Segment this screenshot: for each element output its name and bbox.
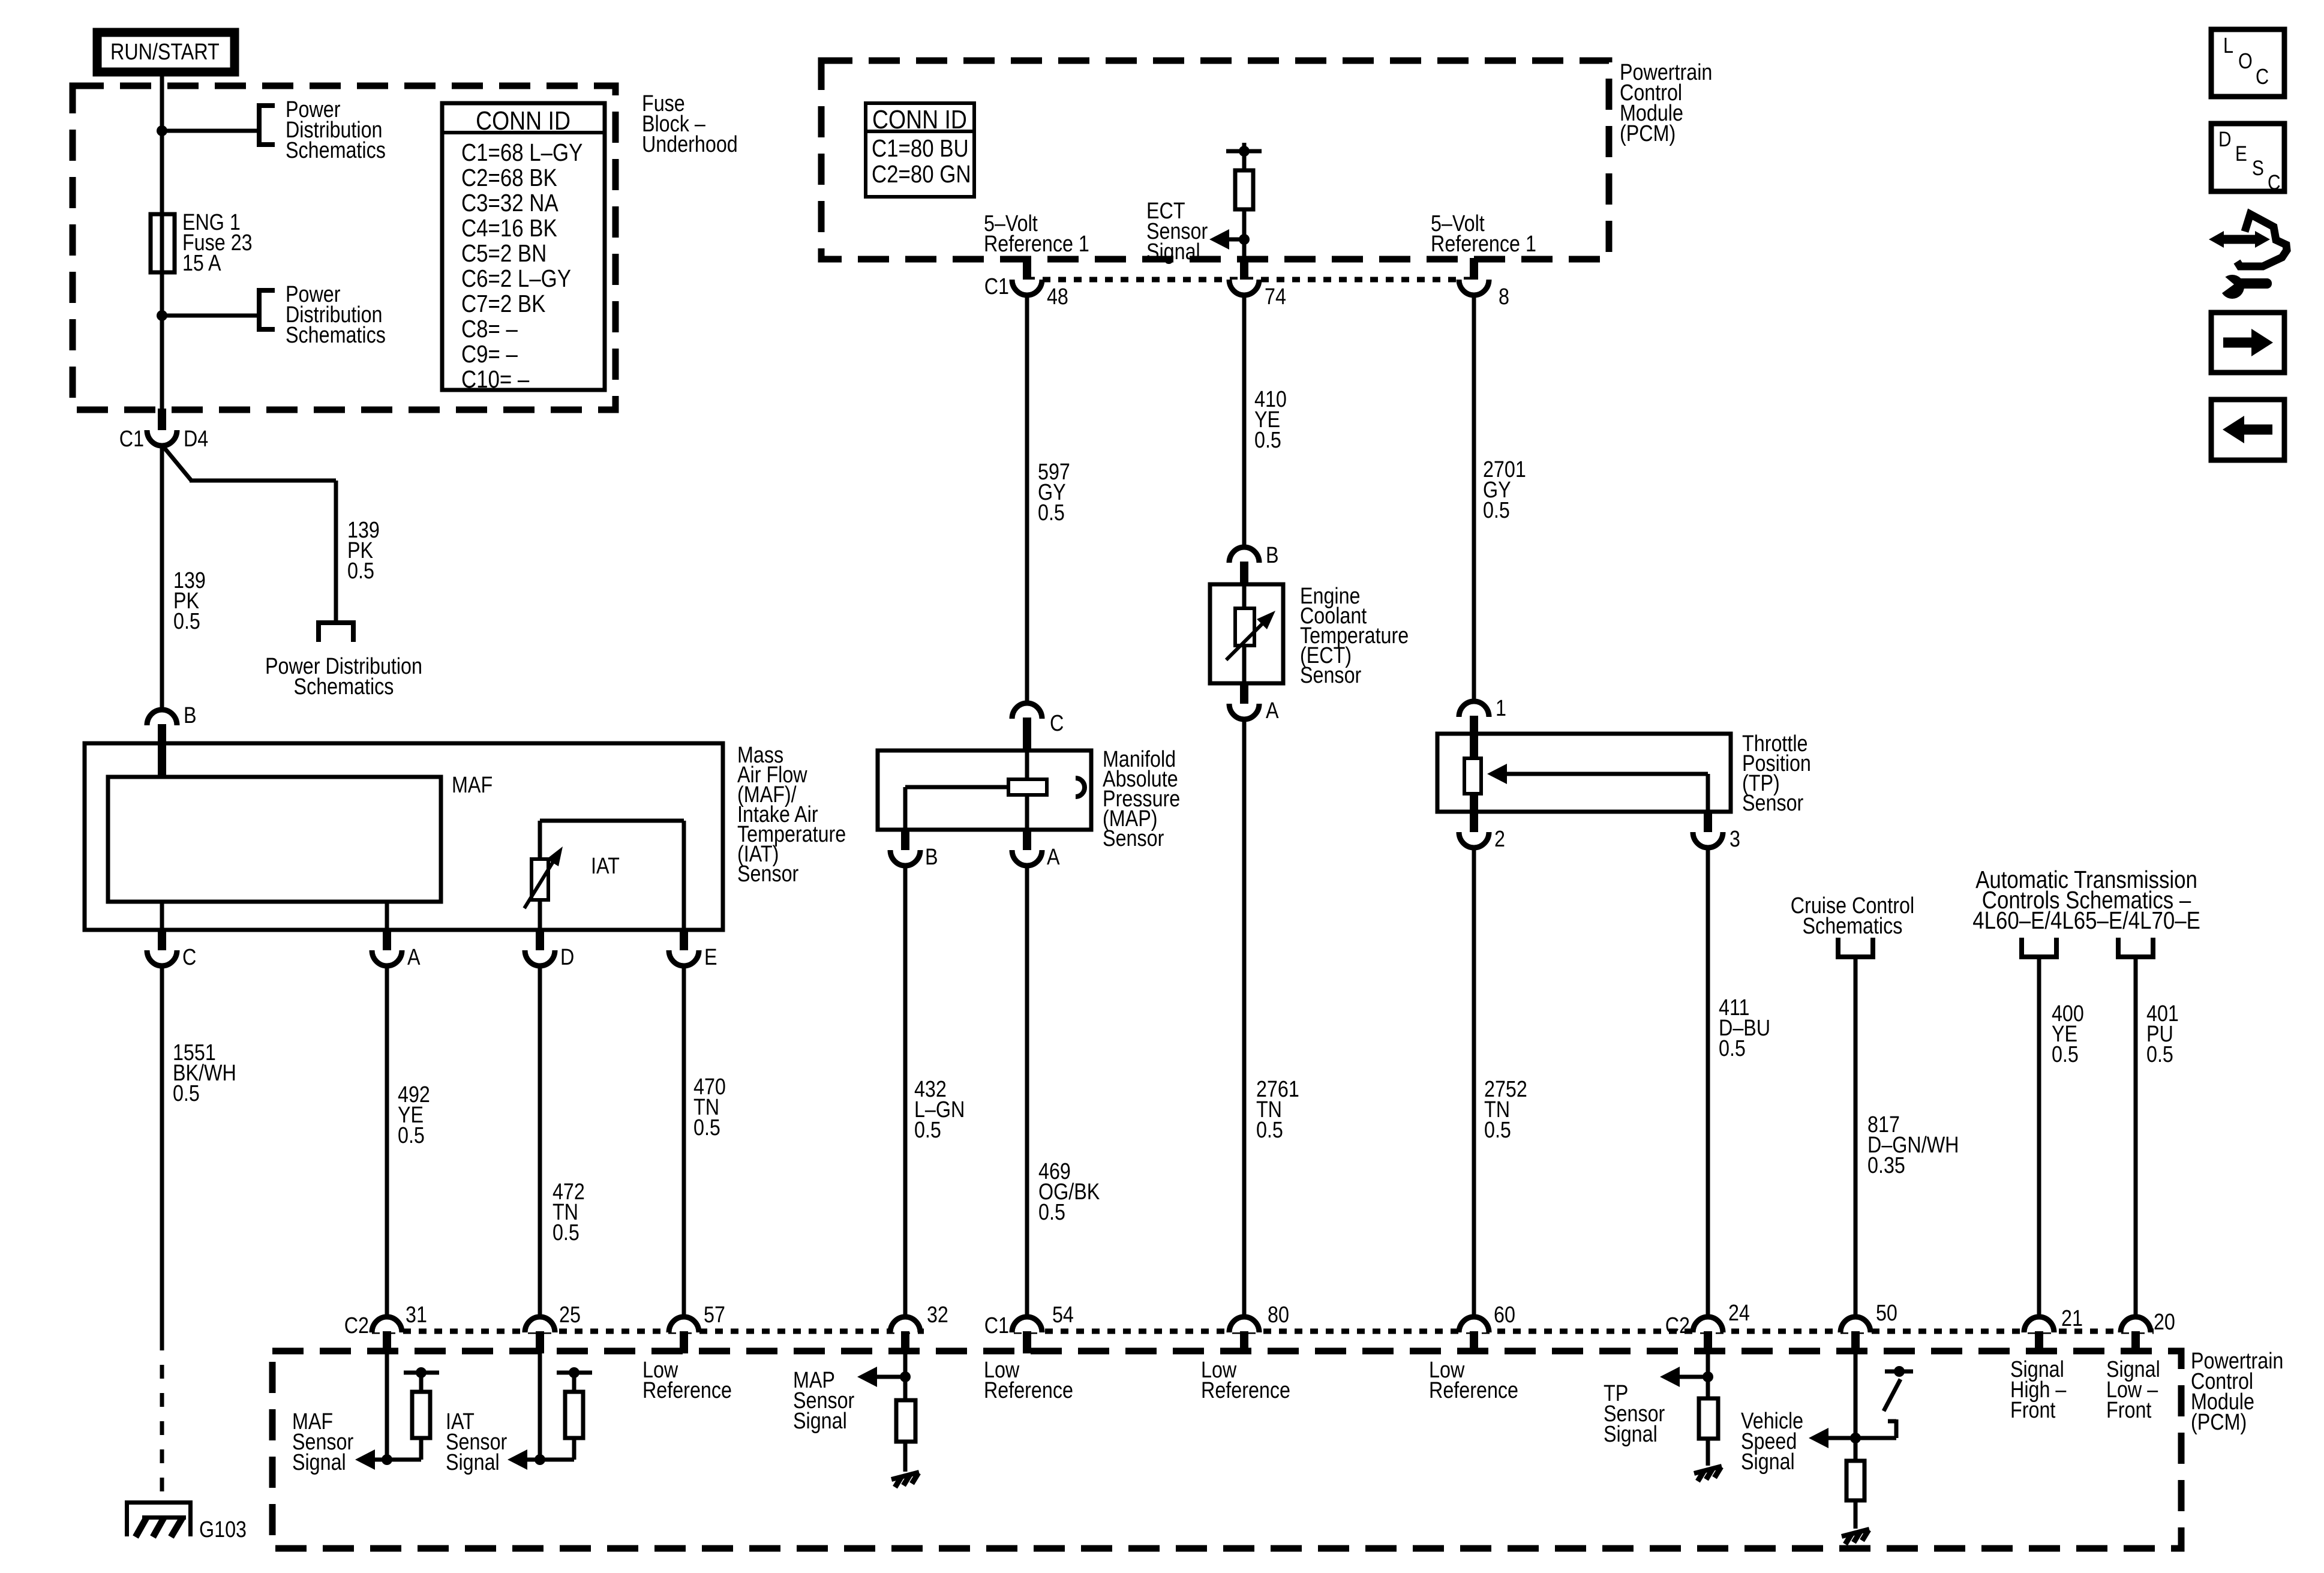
ground G103 <box>125 1500 193 1537</box>
svg-text:0.5: 0.5 <box>693 1115 720 1140</box>
svg-text:D4: D4 <box>184 427 208 452</box>
svg-text:0.5: 0.5 <box>1256 1118 1283 1143</box>
label wire 492 <box>398 1082 430 1148</box>
svg-text:CONN ID: CONN ID <box>872 104 967 134</box>
svg-text:C: C <box>1050 711 1064 736</box>
wire 410 YE <box>1242 294 1247 552</box>
CONN ID table PCM <box>866 103 974 197</box>
label fuse ENG 1 <box>182 210 253 276</box>
svg-text:0.5: 0.5 <box>914 1118 941 1143</box>
svg-text:C2: C2 <box>1665 1313 1690 1338</box>
node junction to power distribution 1 <box>157 125 259 136</box>
connector bracket AT signal low <box>2118 938 2153 957</box>
svg-text:CONN ID: CONN ID <box>476 106 571 136</box>
wire 432 L-GN <box>903 864 908 1317</box>
svg-text:Underhood: Underhood <box>642 132 738 157</box>
wire 817 D-GN/WH <box>1854 957 1858 1317</box>
pin 57 <box>669 1302 725 1353</box>
label wire 432 <box>914 1077 965 1143</box>
wire 139 PK trunk <box>160 445 164 711</box>
svg-text:0.5: 0.5 <box>1038 500 1065 526</box>
svg-text:Sensor: Sensor <box>1300 663 1362 688</box>
svg-text:A: A <box>407 945 421 970</box>
connector A ECT <box>1229 682 1279 724</box>
svg-text:Signal: Signal <box>292 1450 346 1475</box>
svg-text:C4=16 BK: C4=16 BK <box>461 215 557 242</box>
svg-text:C6=2 L–GY: C6=2 L–GY <box>461 265 571 292</box>
connector bracket power distribution 1 <box>259 106 275 145</box>
svg-text:C7=2 BK: C7=2 BK <box>461 290 545 317</box>
resistor MAP signal <box>896 1400 915 1472</box>
dotted connector line bottom C1 <box>1014 1329 2154 1334</box>
label wire 400 <box>2052 1001 2084 1067</box>
connector 3 TP <box>1693 810 1740 852</box>
label engine coolant temperature sensor <box>1300 584 1409 688</box>
label wire 2752 <box>1484 1077 1527 1143</box>
svg-text:20: 20 <box>2154 1310 2175 1335</box>
pin 60 <box>1459 1302 1515 1353</box>
label manifold absolute pressure sensor <box>1103 747 1180 851</box>
resistor ECT pullup in PCM <box>1226 143 1262 259</box>
svg-text:C: C <box>2268 171 2280 194</box>
svg-text:C: C <box>2256 65 2269 89</box>
svg-text:2: 2 <box>1494 827 1505 852</box>
svg-text:E: E <box>2235 142 2247 166</box>
svg-text:C: C <box>182 945 196 970</box>
ground vehicle speed <box>1842 1529 1869 1544</box>
connector C MAP <box>1012 703 1064 751</box>
svg-text:32: 32 <box>927 1302 948 1328</box>
label powertrain control module bottom <box>2191 1349 2283 1435</box>
svg-text:4L60–E/4L65–E/4L70–E: 4L60–E/4L65–E/4L70–E <box>1972 907 2200 934</box>
icon animal head with arrow and wrench <box>2209 214 2287 299</box>
svg-text:31: 31 <box>406 1302 427 1328</box>
connector 2 TP <box>1459 810 1505 852</box>
svg-text:RUN/START: RUN/START <box>110 40 220 65</box>
svg-text:G103: G103 <box>199 1517 247 1542</box>
connector bracket AT signal high <box>2022 938 2056 957</box>
svg-text:0.5: 0.5 <box>1254 428 1281 453</box>
svg-text:0.5: 0.5 <box>2146 1042 2173 1067</box>
svg-text:C8= –: C8= – <box>461 316 518 343</box>
wire RUN/START to C1 D4 <box>160 72 164 410</box>
svg-text:48: 48 <box>1047 284 1068 310</box>
svg-text:0.5: 0.5 <box>553 1220 580 1245</box>
fuse block label <box>642 91 738 157</box>
svg-text:0.35: 0.35 <box>1867 1153 1905 1178</box>
MAF sensor outer box <box>85 743 723 930</box>
pin 24 C2 <box>1665 1301 1750 1353</box>
switch vehicle speed <box>1884 1366 1913 1438</box>
label IAT <box>591 854 620 879</box>
svg-text:(PCM): (PCM) <box>2191 1410 2247 1435</box>
svg-text:C2=68 BK: C2=68 BK <box>461 164 557 191</box>
svg-text:Signal: Signal <box>1604 1422 1658 1447</box>
label wire 2701 <box>1483 457 1526 523</box>
svg-text:Signal: Signal <box>793 1409 847 1434</box>
label wire 411 <box>1719 995 1770 1061</box>
pin 20 <box>2121 1310 2175 1353</box>
svg-text:Signal: Signal <box>446 1450 500 1475</box>
PCM top dashed box <box>821 61 1609 259</box>
label wire 1551 <box>173 1040 236 1106</box>
svg-text:MAF: MAF <box>452 773 493 798</box>
svg-text:Reference 1: Reference 1 <box>984 232 1089 257</box>
wire 400 YE <box>2037 957 2041 1317</box>
svg-text:C1: C1 <box>984 1313 1009 1338</box>
svg-text:0.5: 0.5 <box>1484 1118 1511 1143</box>
svg-text:D: D <box>560 945 574 970</box>
svg-text:74: 74 <box>1265 284 1286 310</box>
label mass air flow sensor <box>737 743 846 887</box>
switch RUN/START label box <box>97 32 235 72</box>
ECT sensor box <box>1210 584 1283 683</box>
label power distribution schematics 3 <box>265 654 422 700</box>
label wire 597 <box>1038 460 1070 526</box>
svg-text:C1: C1 <box>119 427 144 452</box>
svg-text:Schematics: Schematics <box>1803 914 1903 939</box>
wire 470 TN <box>682 965 686 1317</box>
svg-text:Front: Front <box>2010 1398 2056 1423</box>
label MAF <box>452 773 493 798</box>
svg-text:60: 60 <box>1494 1302 1515 1328</box>
label signal high front <box>2010 1357 2067 1423</box>
node IAT signal junction <box>508 1449 574 1470</box>
svg-text:Reference: Reference <box>1429 1378 1518 1403</box>
wire 2701 GY <box>1472 294 1476 701</box>
wire 2761 TN <box>1242 718 1247 1317</box>
svg-text:Reference 1: Reference 1 <box>1431 232 1536 257</box>
svg-text:0.5: 0.5 <box>1038 1200 1065 1225</box>
PCM bottom dashed box <box>272 1351 2181 1548</box>
CONN ID table fuse block <box>442 103 605 394</box>
svg-text:Reference: Reference <box>1201 1378 1290 1403</box>
svg-text:Sensor: Sensor <box>1742 791 1804 816</box>
svg-text:S: S <box>2252 157 2264 180</box>
label wire 469 <box>1038 1159 1100 1225</box>
pin 21 <box>2024 1306 2083 1353</box>
connector A MAF <box>372 929 421 970</box>
wire MAF A inner to edge <box>385 902 389 930</box>
wire 472 TN <box>538 965 542 1317</box>
icon DESC box <box>2211 124 2284 194</box>
wire 139 PK branch to power distribution <box>163 446 336 623</box>
pin 8 <box>1459 258 1509 310</box>
svg-text:B: B <box>184 703 197 728</box>
connector C1 D4 <box>119 409 209 452</box>
TP potentiometer <box>1464 734 1708 812</box>
MAF inner module box <box>108 777 441 902</box>
svg-text:C5=2 BN: C5=2 BN <box>461 240 547 267</box>
svg-text:1: 1 <box>1496 696 1506 721</box>
label wire 2761 <box>1256 1077 1299 1143</box>
connector B MAP <box>890 828 938 870</box>
label TP sensor signal <box>1604 1381 1665 1447</box>
svg-text:A: A <box>1047 845 1060 870</box>
svg-text:0.5: 0.5 <box>1483 498 1510 523</box>
wire 411 D-BU <box>1706 846 1710 1317</box>
node vehicle speed signal junction <box>1809 1428 1896 1448</box>
wire 597 GY <box>1025 294 1029 704</box>
dotted connector line top <box>1027 277 1476 283</box>
icon back arrow box <box>2211 400 2284 460</box>
label wire 139 PK left <box>173 568 206 634</box>
pin 74 <box>1229 258 1286 310</box>
node TP signal junction <box>1660 1367 1713 1387</box>
pin 31 C2 <box>344 1302 427 1353</box>
label 5-volt reference 1 left <box>984 211 1089 257</box>
resistor vehicle speed <box>1846 1461 1864 1529</box>
wire 401 PU <box>2134 957 2138 1317</box>
svg-text:80: 80 <box>1268 1302 1289 1328</box>
svg-text:57: 57 <box>704 1302 725 1328</box>
wire MAF signal inside PCM <box>385 1353 389 1460</box>
svg-text:3: 3 <box>1730 827 1740 852</box>
wire 469 OG/BK <box>1025 864 1029 1317</box>
node junction to power distribution 2 <box>157 310 259 321</box>
svg-text:25: 25 <box>559 1302 581 1328</box>
svg-text:B: B <box>1266 543 1279 568</box>
ground TP signal <box>1694 1466 1722 1481</box>
MAP sensor box <box>878 751 1091 830</box>
svg-text:C1=80 BU: C1=80 BU <box>872 135 969 162</box>
svg-text:24: 24 <box>1728 1301 1750 1326</box>
label wire 817 <box>1867 1112 1959 1178</box>
svg-text:B: B <box>925 845 938 870</box>
wire vehicle speed inside PCM <box>1854 1353 1858 1461</box>
svg-text:D: D <box>2218 128 2231 151</box>
svg-text:(PCM): (PCM) <box>1620 121 1676 146</box>
svg-text:Schematics: Schematics <box>286 138 386 163</box>
resistor IAT signal pullup <box>557 1367 592 1460</box>
connector B ECT <box>1229 543 1279 584</box>
connector E MAF <box>669 929 717 970</box>
label low reference 57 <box>642 1358 732 1403</box>
svg-text:Sensor: Sensor <box>737 861 799 887</box>
IAT thermistor subcircuit <box>524 821 684 930</box>
TP sensor box <box>1437 734 1731 812</box>
svg-text:C1=68 L–GY: C1=68 L–GY <box>461 139 582 166</box>
icon LOC box <box>2211 29 2284 97</box>
wire MAF C inner to edge <box>160 902 164 930</box>
svg-text:Signal: Signal <box>1741 1449 1795 1475</box>
svg-text:0.5: 0.5 <box>173 1081 200 1106</box>
label automatic transmission schematics <box>1972 866 2200 934</box>
resistor MAF signal pullup <box>404 1367 439 1460</box>
svg-text:IAT: IAT <box>591 854 620 879</box>
label MAP sensor signal <box>793 1368 855 1434</box>
label signal low front <box>2106 1357 2160 1423</box>
wire 2752 TN <box>1472 846 1476 1317</box>
svg-text:Schematics: Schematics <box>294 674 394 700</box>
connector A MAP <box>1012 828 1060 870</box>
label low reference 54 <box>984 1358 1073 1403</box>
connector bracket power distribution 3 <box>319 623 353 642</box>
label 5-volt reference 1 right <box>1431 211 1536 257</box>
connector bracket power distribution 2 <box>259 290 275 329</box>
wire 492 YE <box>385 965 389 1317</box>
pin 80 <box>1229 1302 1289 1353</box>
svg-text:Front: Front <box>2106 1398 2152 1423</box>
fuse ENG 1 Fuse 23 15A <box>151 214 175 272</box>
svg-text:0.5: 0.5 <box>2052 1042 2079 1067</box>
label ECT sensor signal <box>1146 199 1208 265</box>
wire TP signal inside PCM <box>1706 1353 1710 1398</box>
label wire 410 <box>1254 387 1287 453</box>
label throttle position sensor <box>1742 731 1811 816</box>
connector C MAF <box>147 929 196 970</box>
svg-text:A: A <box>1266 698 1279 724</box>
svg-text:C2=80 GN: C2=80 GN <box>872 161 971 188</box>
node MAP signal junction <box>857 1367 911 1387</box>
MAP sensor element <box>905 751 1085 830</box>
label low reference 80 <box>1201 1358 1290 1403</box>
label low reference 60 <box>1429 1358 1518 1403</box>
node ECT sensor signal junction <box>1209 229 1250 250</box>
svg-text:C2: C2 <box>344 1313 369 1338</box>
ECT thermistor <box>1226 584 1275 683</box>
svg-text:Signal: Signal <box>1146 239 1200 265</box>
label MAF sensor signal <box>292 1409 354 1475</box>
label wire 470 <box>693 1074 726 1140</box>
svg-text:54: 54 <box>1052 1302 1074 1328</box>
svg-text:Reference: Reference <box>642 1378 732 1403</box>
svg-text:15 A: 15 A <box>182 251 221 276</box>
connector bracket cruise control <box>1838 938 1873 957</box>
icon forward arrow box <box>2211 313 2284 373</box>
wire 1551 BK/WH <box>160 965 164 1503</box>
pin 50 <box>1840 1301 1897 1353</box>
wire MAP signal inside PCM <box>903 1353 908 1400</box>
fuse block underhood dashed box <box>73 86 615 410</box>
resistor TP signal <box>1699 1398 1718 1466</box>
svg-text:21: 21 <box>2061 1306 2083 1331</box>
svg-text:Schematics: Schematics <box>286 323 386 348</box>
svg-text:50: 50 <box>1876 1301 1897 1326</box>
label wire 401 <box>2146 1001 2179 1067</box>
pin 54 C1 <box>984 1302 1074 1353</box>
wire IAT signal inside PCM <box>538 1353 542 1460</box>
svg-text:C10= –: C10= – <box>461 366 530 393</box>
svg-text:0.5: 0.5 <box>398 1123 425 1148</box>
svg-text:C9= –: C9= – <box>461 341 518 368</box>
connector 1 TP <box>1459 696 1506 734</box>
label powertrain control module top <box>1620 60 1712 146</box>
svg-text:0.5: 0.5 <box>1719 1036 1746 1061</box>
svg-text:0.5: 0.5 <box>347 559 374 584</box>
svg-text:C1: C1 <box>984 274 1009 299</box>
connector B MAF <box>147 703 197 777</box>
dotted connector line bottom C2 <box>372 1329 924 1334</box>
label G103 <box>199 1517 247 1542</box>
pin 48 C1 <box>984 258 1068 310</box>
label power distribution schematics 2 <box>286 282 386 348</box>
label power distribution schematics 1 <box>286 97 386 163</box>
label IAT sensor signal <box>446 1409 508 1475</box>
svg-text:0.5: 0.5 <box>173 609 200 634</box>
label wire 139 PK branch <box>347 518 380 584</box>
label vehicle speed signal <box>1741 1409 1803 1475</box>
svg-text:L: L <box>2223 34 2233 58</box>
svg-text:Sensor: Sensor <box>1103 826 1164 851</box>
label cruise control schematics <box>1791 893 1914 939</box>
label wire 472 <box>553 1179 585 1245</box>
svg-text:O: O <box>2238 50 2253 74</box>
node MAF signal junction <box>355 1449 421 1470</box>
svg-text:C3=32 NA: C3=32 NA <box>461 190 559 217</box>
connector D MAF <box>525 929 574 970</box>
pin 25 <box>525 1302 581 1353</box>
svg-text:8: 8 <box>1499 284 1509 310</box>
ground MAP signal <box>891 1472 919 1487</box>
pin 32 <box>890 1302 948 1353</box>
svg-text:E: E <box>704 945 717 970</box>
svg-text:Reference: Reference <box>984 1378 1073 1403</box>
